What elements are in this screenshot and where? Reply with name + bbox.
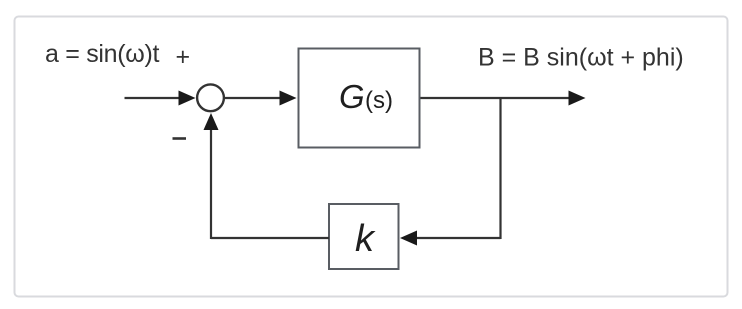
minus sign at summing junction [173,137,187,140]
svg-text:a = sin(ω)t: a = sin(ω)t [45,40,160,68]
svg-text:G: G [339,78,365,115]
arrowhead into summing junction bottom [204,113,219,130]
block G(s) [299,49,420,148]
arrowhead into summing junction [179,91,196,106]
svg-text:k: k [355,218,376,260]
svg-text:+: + [176,43,191,71]
svg-text:B = B sin(ωt + phi): B = B sin(ωt + phi) [478,44,684,72]
arrowhead output [569,91,586,106]
svg-text:(s): (s) [365,87,393,114]
block k [329,204,399,269]
wire: feedback right horizontal [416,237,501,239]
wire: branch vertical down from output node [499,97,501,239]
wire: input line [125,97,181,99]
wire: G box output line [421,97,571,99]
wire: feedback vertical up to circle [210,128,212,239]
arrowhead into G box [280,91,297,106]
summing junction circle [197,84,224,111]
arrowhead into k box [400,231,417,246]
wire: circle to G box [225,97,281,99]
wire: feedback left horizontal [211,237,329,239]
